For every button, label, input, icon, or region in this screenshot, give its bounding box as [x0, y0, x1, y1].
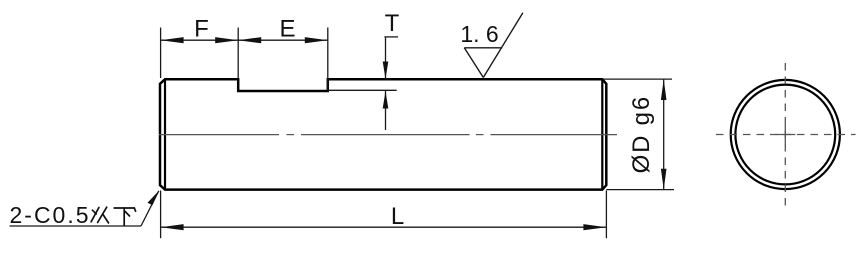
svg-text:L: L [391, 203, 404, 230]
svg-text:E: E [279, 15, 295, 42]
svg-text:1. 6: 1. 6 [460, 21, 498, 47]
svg-text:F: F [194, 15, 209, 42]
svg-text:T: T [385, 10, 400, 37]
svg-text:ØD g6: ØD g6 [628, 95, 655, 173]
svg-text:2-C0.5: 2-C0.5 [10, 202, 91, 228]
